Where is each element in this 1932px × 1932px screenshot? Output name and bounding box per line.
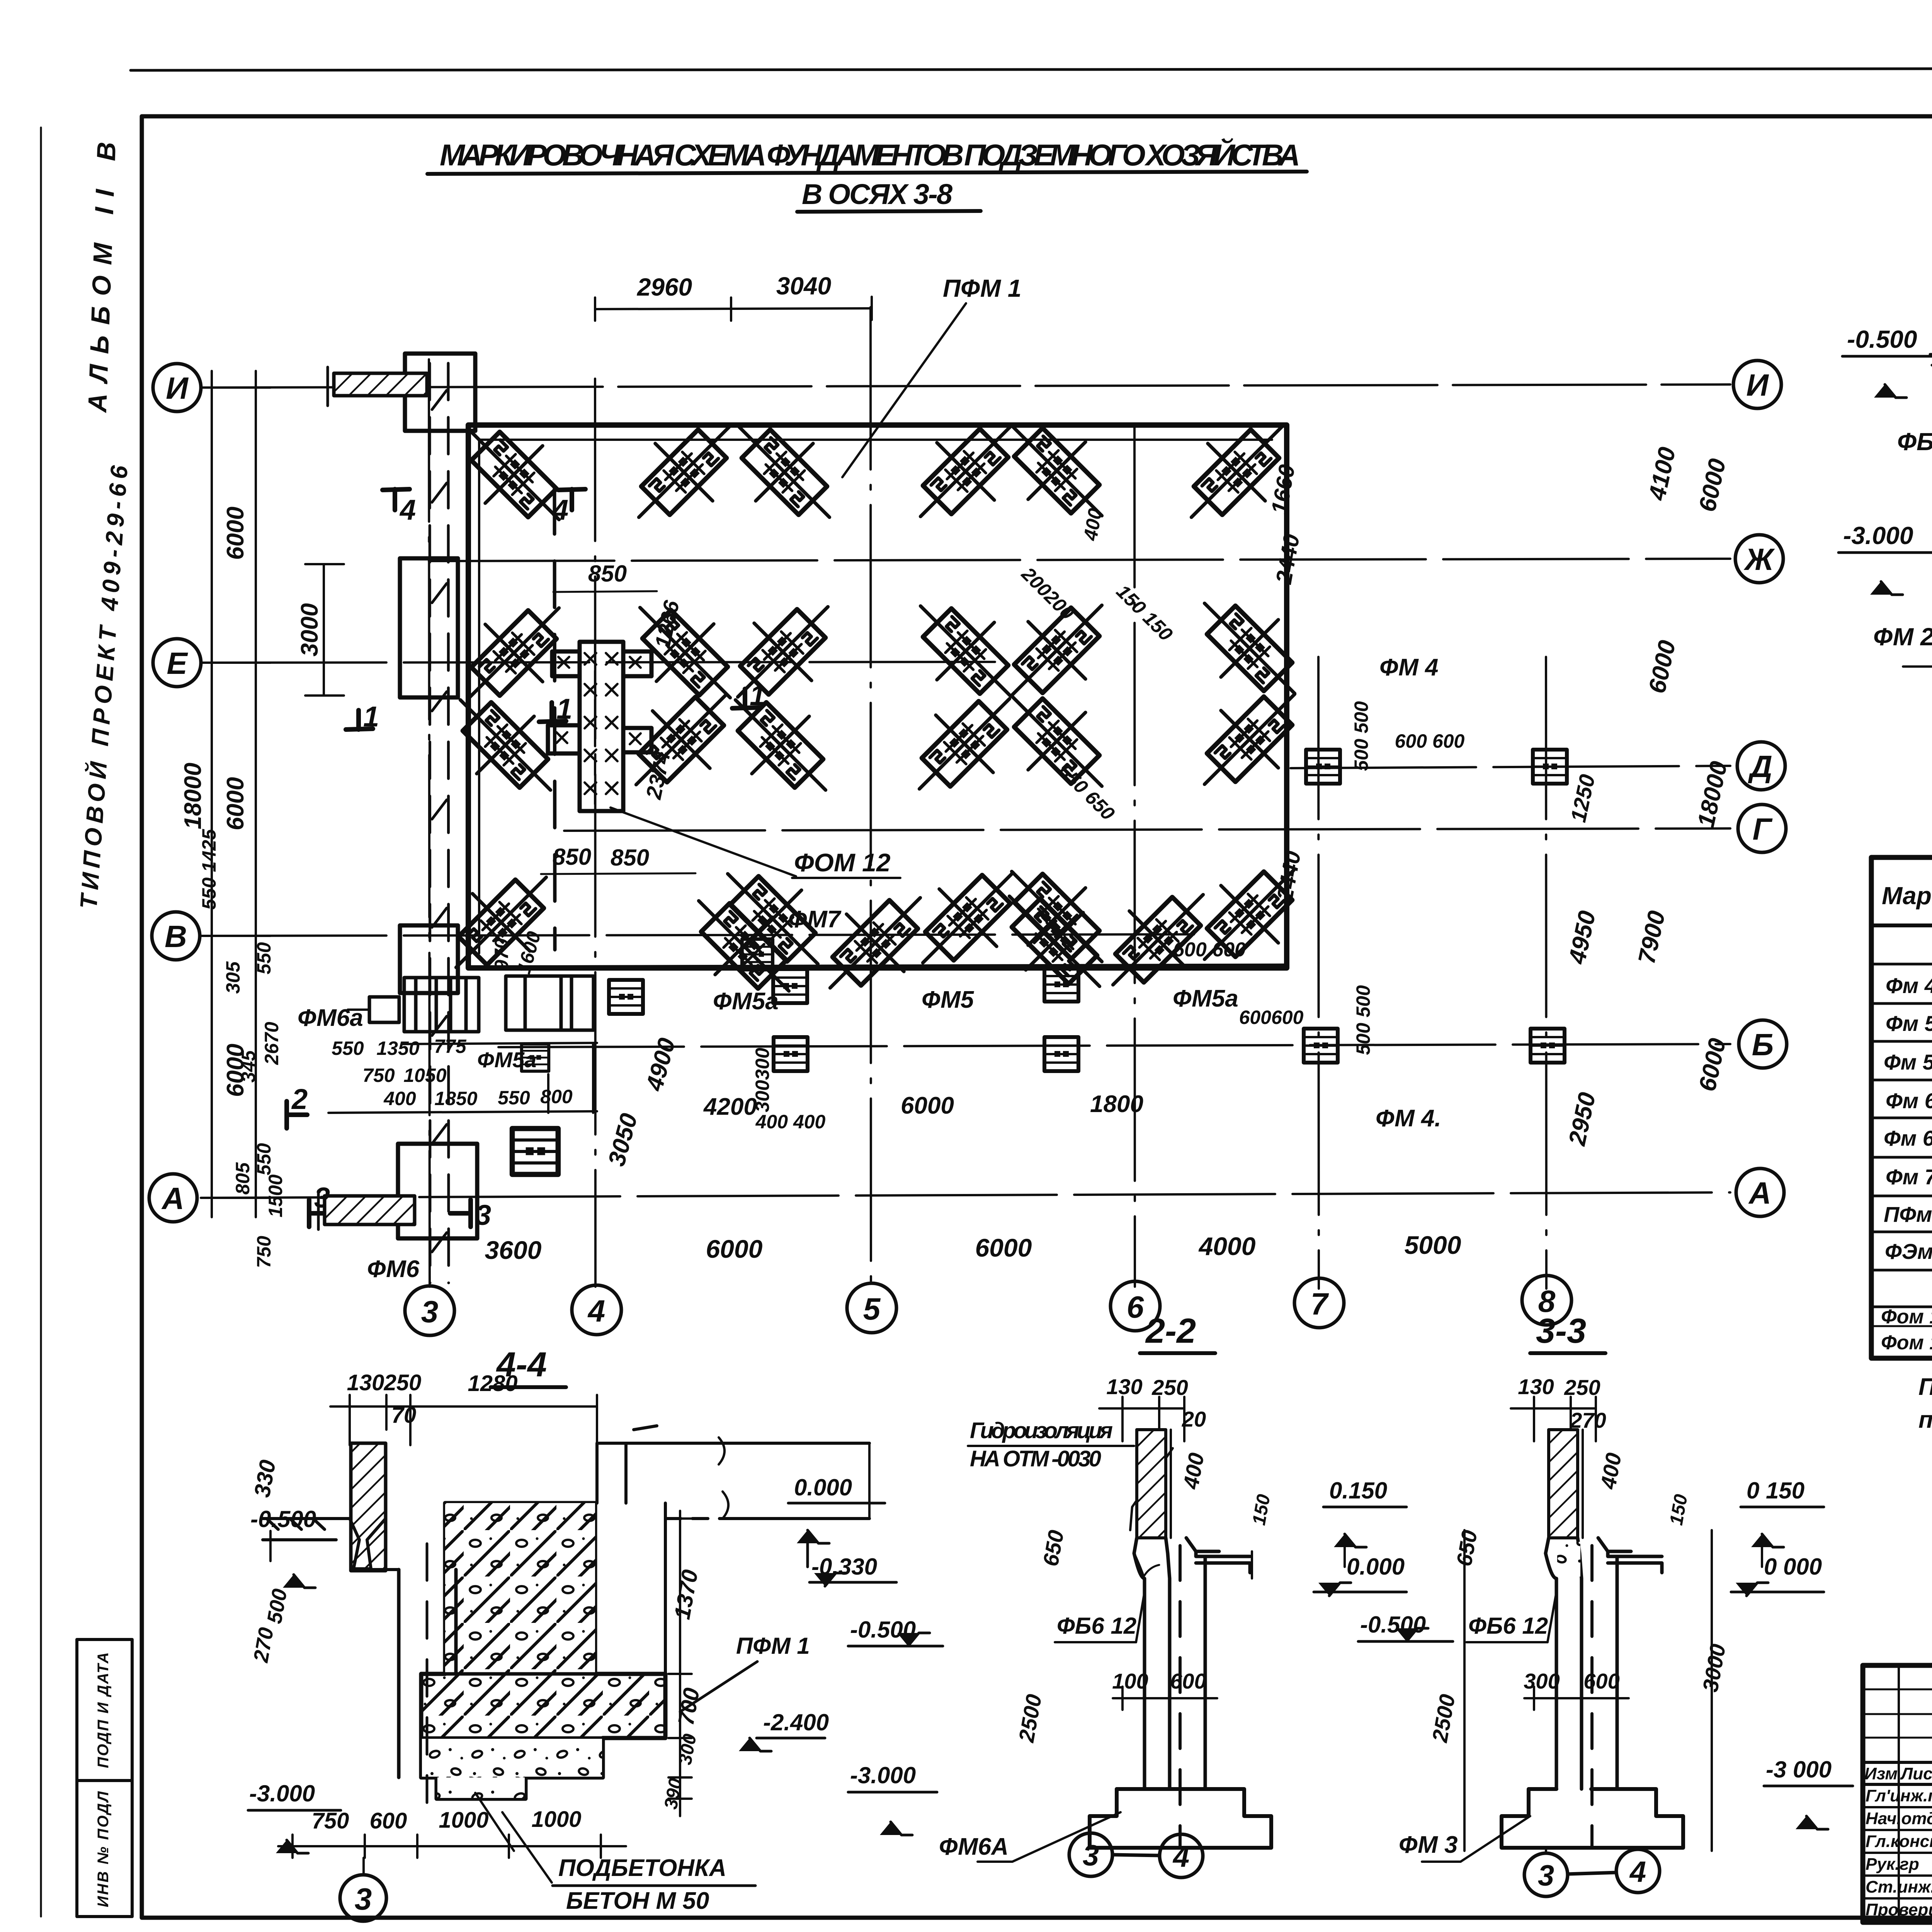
- svg-text:Под фундаментной плитои вып: Под фундаментной плитои выполнить бетонн…: [1918, 1374, 1932, 1400]
- svg-text:Фм 5А: Фм 5А: [1884, 1050, 1932, 1074]
- svg-text:650: 650: [1038, 1528, 1068, 1568]
- right axis circles: [1733, 361, 1781, 408]
- steps: [1090, 1789, 1271, 1848]
- svg-text:6000: 6000: [975, 1233, 1032, 1262]
- steps: [1502, 1789, 1683, 1848]
- left stamp boxes: [77, 1639, 132, 1917]
- svg-text:550: 550: [498, 1087, 530, 1109]
- svg-text:1370: 1370: [670, 1568, 703, 1621]
- svg-text:ФМ 4: ФМ 4: [1379, 654, 1439, 681]
- svg-text:1350: 1350: [376, 1037, 419, 1059]
- svg-text:ФОМ 12: ФОМ 12: [794, 848, 891, 877]
- svg-text:-0.500: -0.500: [1847, 325, 1917, 353]
- svg-text:-3.000: -3.000: [249, 1781, 315, 1806]
- svg-text:-2.400: -2.400: [763, 1709, 829, 1735]
- svg-text:Д: Д: [1748, 749, 1772, 784]
- svg-text:0 150: 0 150: [1747, 1478, 1804, 1503]
- svg-text:600: 600: [370, 1808, 407, 1833]
- bottom dim chain of plan: [406, 1252, 1573, 1283]
- trench along axis 3: [430, 363, 449, 1283]
- svg-text:-3 000: -3 000: [1766, 1757, 1832, 1782]
- svg-text:2500: 2500: [1427, 1692, 1460, 1745]
- svg-text:130: 130: [347, 1370, 384, 1395]
- svg-text:И: И: [1746, 368, 1769, 402]
- horizontal axis lines: [201, 384, 1730, 388]
- top dims: [330, 1395, 597, 1503]
- svg-text:Фм 4: Фм 4: [1886, 973, 1932, 998]
- svg-text:600: 600: [1583, 1669, 1619, 1693]
- dim lines in that cluster: [216, 947, 591, 1206]
- svg-text:390: 390: [661, 1777, 686, 1811]
- svg-text:3: 3: [421, 1294, 439, 1329]
- section cut marks: [287, 489, 765, 1231]
- svg-text:2: 2: [291, 1083, 308, 1115]
- svg-text:6: 6: [1127, 1290, 1144, 1324]
- svg-text:250: 250: [384, 1370, 422, 1395]
- svg-text:ФМ5а: ФМ5а: [1173, 985, 1238, 1012]
- svg-text:750: 750: [362, 1065, 395, 1086]
- svg-text:70: 70: [391, 1403, 417, 1428]
- svg-text:БЕТОН М 50: БЕТОН М 50: [566, 1888, 709, 1914]
- svg-text:МАРКИРОВОЧНАЯ СХЕМА ФУНДАМЕНТО: МАРКИРОВОЧНАЯ СХЕМА ФУНДАМЕНТОВ ПОДЗЕМНО…: [440, 138, 1304, 172]
- svg-text:В ОСЯХ 3-8: В ОСЯХ 3-8: [802, 178, 956, 210]
- svg-text:6000: 6000: [901, 1092, 954, 1119]
- pit dashed boundary: [554, 488, 555, 950]
- svg-text:400: 400: [383, 1088, 416, 1109]
- svg-text:6000: 6000: [1694, 1036, 1731, 1094]
- svg-text:2-2: 2-2: [1145, 1312, 1196, 1350]
- svg-text:Фом 11: Фом 11: [1881, 1332, 1932, 1354]
- svg-text:6000: 6000: [1694, 456, 1731, 514]
- hatched wall: [1549, 1430, 1578, 1538]
- right column profile: [1186, 1538, 1250, 1789]
- svg-text:700: 700: [673, 1686, 704, 1727]
- svg-text:970: 970: [491, 938, 512, 971]
- svg-text:7900: 7900: [1633, 908, 1670, 966]
- svg-text:850: 850: [553, 844, 591, 870]
- svg-text:0 000: 0 000: [1764, 1554, 1822, 1580]
- svg-text:АЛЬБОМ II В: АЛЬБОМ II В: [83, 141, 121, 413]
- far-left thin line: [40, 128, 42, 1917]
- svg-text:4: 4: [1172, 1840, 1189, 1873]
- svg-text:800: 800: [540, 1086, 573, 1107]
- svg-text:А: А: [1748, 1176, 1771, 1210]
- svg-text:600600: 600600: [1239, 1007, 1304, 1028]
- svg-text:-3.000: -3.000: [1843, 522, 1913, 549]
- svg-text:400: 400: [1079, 507, 1106, 543]
- svg-text:4: 4: [399, 494, 416, 526]
- svg-text:1000: 1000: [439, 1808, 488, 1833]
- hatched wall column: [351, 1443, 386, 1571]
- svg-text:ФМ 4.: ФМ 4.: [1376, 1105, 1441, 1132]
- svg-text:Ж: Ж: [1743, 542, 1775, 577]
- svg-text:ФМ5: ФМ5: [922, 986, 975, 1013]
- svg-text:Фм 6А: Фм 6А: [1884, 1126, 1932, 1150]
- svg-text:2440: 2440: [1271, 532, 1304, 586]
- right dims/levels: [736, 1475, 877, 1735]
- fm4 leaders: [359, 682, 1546, 1269]
- top dims: [1511, 1397, 1596, 1441]
- bottom dims: [278, 1835, 626, 1858]
- vertical axis lines: [429, 359, 430, 1287]
- svg-text:500 500: 500 500: [1350, 701, 1372, 771]
- svg-text:650: 650: [1452, 1528, 1482, 1568]
- svg-text:Нач.отд.: Нач.отд.: [1866, 1809, 1932, 1828]
- svg-text:6000: 6000: [222, 507, 249, 560]
- svg-text:ПОДБЕТОНКА: ПОДБЕТОНКА: [558, 1855, 726, 1881]
- body texts: [1881, 930, 1932, 1354]
- svg-text:Лист: Лист: [1900, 1764, 1932, 1783]
- svg-text:100: 100: [1112, 1669, 1148, 1693]
- svg-text:150: 150: [1249, 1493, 1274, 1527]
- hatched wall: [1137, 1430, 1166, 1538]
- svg-text:-0.500: -0.500: [250, 1506, 316, 1532]
- svg-text:ПОДП И ДАТА: ПОДП И ДАТА: [95, 1652, 112, 1768]
- svg-text:18000: 18000: [180, 763, 206, 829]
- svg-text:подготовку из бетона М-200: подготовку из бетона М-200 толщиной 100м…: [1918, 1406, 1932, 1433]
- svg-text:805: 805: [232, 1162, 253, 1195]
- floor slab left: [263, 1519, 386, 1569]
- svg-text:Гл'инж.пр.: Гл'инж.пр.: [1866, 1786, 1932, 1805]
- svg-text:300300: 300300: [752, 1048, 773, 1112]
- svg-text:1000: 1000: [531, 1807, 581, 1832]
- table outline: [1871, 857, 1932, 1358]
- svg-text:150: 150: [1666, 1493, 1692, 1527]
- svg-text:345: 345: [238, 1050, 259, 1083]
- svg-text:Ст.инж.: Ст.инж.: [1866, 1878, 1932, 1896]
- svg-text:ФМ5а: ФМ5а: [713, 988, 779, 1015]
- svg-text:6000: 6000: [222, 777, 249, 830]
- svg-text:Гл.констр: Гл.констр: [1866, 1832, 1932, 1851]
- plan mid labels: [298, 654, 1441, 1282]
- svg-text:200200: 200200: [1017, 563, 1078, 624]
- svg-text:2960: 2960: [637, 273, 692, 301]
- svg-text:ФМ6а: ФМ6а: [298, 1005, 363, 1031]
- dims: [1427, 1642, 1730, 1745]
- svg-text:ТИПОВОЙ ПРОЕКТ 409-29-66: ТИПОВОЙ ПРОЕКТ 409-29-66: [75, 464, 133, 910]
- svg-text:3-3: 3-3: [1536, 1312, 1586, 1350]
- bottom axis circles: [405, 1286, 454, 1335]
- svg-text:1500: 1500: [265, 1174, 286, 1217]
- A-row beam and block at axis 3: [398, 1144, 477, 1238]
- top thin sheet line: [131, 68, 1932, 70]
- svg-text:ПФМ 1: ПФМ 1: [736, 1633, 810, 1659]
- svg-text:3000: 3000: [1698, 1642, 1730, 1694]
- svg-text:4950: 4950: [1563, 908, 1601, 967]
- svg-text:Фм 7: Фм 7: [1886, 1165, 1932, 1189]
- svg-text:1660: 1660: [1267, 463, 1300, 516]
- svg-text:ИНВ № ПОДЛ: ИНВ № ПОДЛ: [95, 1791, 112, 1907]
- svg-text:850: 850: [588, 561, 627, 587]
- svg-text:Е: Е: [167, 646, 188, 680]
- svg-text:4000: 4000: [1198, 1232, 1256, 1260]
- svg-text:1280: 1280: [468, 1371, 517, 1396]
- svg-text:1850: 1850: [434, 1088, 477, 1109]
- svg-text:Марка: Марка: [1882, 882, 1932, 910]
- svg-text:4100: 4100: [1643, 445, 1681, 503]
- podbetonka speckles lower-left part: [422, 1739, 602, 1777]
- ground line + hatched ground: [1930, 354, 1932, 365]
- svg-text:130: 130: [1518, 1374, 1554, 1399]
- svg-text:775: 775: [434, 1036, 467, 1057]
- svg-text:А: А: [161, 1181, 184, 1216]
- svg-text:Фом 10: Фом 10: [1881, 1306, 1932, 1328]
- left signature table: [1863, 1665, 1932, 1922]
- svg-text:550: 550: [253, 1143, 275, 1175]
- svg-text:600 600: 600 600: [1173, 939, 1246, 961]
- svg-text:300: 300: [1524, 1669, 1560, 1693]
- svg-text:2440: 2440: [1272, 849, 1306, 903]
- svg-text:400: 400: [1178, 1451, 1208, 1491]
- svg-text:И: И: [166, 371, 189, 405]
- small square foundations: [512, 750, 1567, 1174]
- svg-text:3: 3: [1083, 1839, 1099, 1872]
- dims between В and Б rows: [638, 1083, 1171, 1108]
- dims: [1014, 1669, 1206, 1744]
- left pier verticals: [397, 1570, 401, 1777]
- svg-text:1: 1: [556, 693, 572, 725]
- svg-text:0.000: 0.000: [1347, 1554, 1405, 1580]
- building thick outline: [468, 425, 1287, 968]
- svg-text:400: 400: [1595, 1451, 1626, 1491]
- svg-text:6000: 6000: [1644, 638, 1681, 696]
- svg-text:ФЭм 9: ФЭм 9: [1885, 1239, 1932, 1264]
- left small dims cluster (В-А zone): [198, 829, 573, 1268]
- svg-text:Рук.гр: Рук.гр: [1866, 1855, 1919, 1874]
- svg-text:3050: 3050: [603, 1111, 643, 1169]
- svg-text:3: 3: [1538, 1859, 1554, 1892]
- svg-text:500 500: 500 500: [1352, 985, 1374, 1055]
- svg-text:1800: 1800: [1090, 1091, 1143, 1117]
- svg-text:5: 5: [863, 1292, 881, 1326]
- svg-text:750: 750: [253, 1236, 275, 1268]
- top dims: [1099, 1397, 1184, 1441]
- svg-text:600: 600: [1170, 1669, 1206, 1693]
- svg-text:1: 1: [363, 701, 379, 733]
- svg-text:5000: 5000: [1405, 1231, 1461, 1259]
- svg-text:0.150: 0.150: [1329, 1478, 1387, 1503]
- svg-text:2950: 2950: [1564, 1090, 1601, 1148]
- svg-text:2500: 2500: [1014, 1692, 1046, 1745]
- svg-text:400 400: 400 400: [755, 1111, 826, 1133]
- svg-text:4900: 4900: [641, 1035, 681, 1094]
- header texts: [1882, 873, 1932, 920]
- central equipment plate FOM12: [548, 642, 651, 811]
- funnel + stem: [1134, 1538, 1170, 1789]
- svg-text:ФМ5а: ФМ5а: [477, 1048, 536, 1072]
- svg-text:ПФм 1: ПФм 1: [1884, 1202, 1932, 1226]
- foundation diamonds: [427, 397, 1323, 1020]
- svg-text:Изм: Изм: [1864, 1764, 1898, 1783]
- svg-text:ПФМ 1: ПФМ 1: [943, 274, 1021, 302]
- svg-text:3000: 3000: [296, 603, 323, 656]
- svg-text:4: 4: [1629, 1855, 1646, 1888]
- rotated dims near diamonds right: [1017, 463, 1465, 1055]
- svg-text:-3.000: -3.000: [850, 1762, 916, 1788]
- svg-text:3040: 3040: [776, 272, 831, 300]
- svg-text:550 1425: 550 1425: [198, 829, 220, 910]
- svg-text:НА ОТМ -0030: НА ОТМ -0030: [970, 1446, 1101, 1471]
- left dimension chains: [201, 371, 344, 1217]
- svg-text:2670: 2670: [261, 1022, 282, 1065]
- svg-text:Б: Б: [1752, 1027, 1774, 1062]
- svg-text:550: 550: [332, 1037, 364, 1059]
- dashed centerline: [1179, 1546, 1182, 1847]
- svg-text:0.000: 0.000: [794, 1475, 852, 1500]
- right structure lines: [597, 1426, 869, 1673]
- svg-text:3: 3: [355, 1882, 372, 1916]
- svg-text:Проверил: Проверил: [1866, 1900, 1932, 1919]
- svg-text:600 600: 600 600: [1395, 730, 1465, 752]
- header bottom: [1871, 923, 1932, 927]
- svg-text:4: 4: [587, 1294, 605, 1328]
- right column profile: [1598, 1538, 1662, 1789]
- svg-text:550: 550: [253, 942, 275, 975]
- svg-text:330: 330: [249, 1458, 281, 1499]
- svg-text:20: 20: [1182, 1407, 1206, 1431]
- mid bottom cluster near axis 3-4: [328, 976, 597, 1113]
- svg-text:ФМ 3: ФМ 3: [1399, 1832, 1458, 1858]
- svg-text:850: 850: [611, 845, 649, 871]
- svg-text:1050: 1050: [403, 1065, 446, 1086]
- svg-text:ФБ6 11: ФБ6 11: [1897, 428, 1932, 456]
- svg-text:270: 270: [249, 1626, 278, 1664]
- wall blocks on trench: [400, 558, 458, 697]
- I-row beam and block at axis 3: [405, 354, 475, 431]
- svg-text:6000: 6000: [706, 1235, 763, 1263]
- svg-text:Г: Г: [1752, 812, 1773, 846]
- svg-text:130: 130: [1106, 1374, 1142, 1399]
- svg-text:18000: 18000: [1692, 759, 1732, 830]
- svg-text:ФМ 2а: ФМ 2а: [1873, 622, 1932, 651]
- funnel + stem: [1546, 1538, 1582, 1789]
- right-side dim chains: [1584, 385, 1739, 1194]
- svg-text:ФБ6 12: ФБ6 12: [1468, 1613, 1548, 1639]
- svg-text:250: 250: [1564, 1375, 1600, 1400]
- svg-text:250: 250: [1151, 1375, 1188, 1400]
- svg-text:ФБ6 12: ФБ6 12: [1057, 1613, 1136, 1639]
- svg-text:150 150: 150 150: [1112, 580, 1177, 645]
- svg-text:-0.500: -0.500: [1360, 1612, 1426, 1638]
- svg-text:ФМ6: ФМ6: [367, 1256, 420, 1282]
- svg-text:3600: 3600: [485, 1236, 542, 1264]
- svg-text:7: 7: [1311, 1287, 1329, 1321]
- svg-text:ФМ6А: ФМ6А: [939, 1833, 1009, 1860]
- svg-text:Фм 6: Фм 6: [1886, 1088, 1932, 1113]
- svg-text:305: 305: [222, 961, 244, 994]
- svg-text:Фм 5: Фм 5: [1886, 1011, 1932, 1036]
- big foundation block hatched: [421, 1503, 665, 1799]
- dashed centerline: [1590, 1546, 1594, 1847]
- svg-text:1250: 1250: [1566, 772, 1600, 824]
- svg-text:Гидроизоляция: Гидроизоляция: [970, 1418, 1113, 1443]
- row lines: [1871, 964, 1932, 1326]
- left axis circles: [149, 361, 1787, 1335]
- top dim 2960/3040: [595, 297, 872, 321]
- svg-text:500: 500: [263, 1587, 292, 1625]
- svg-text:В: В: [165, 919, 187, 954]
- svg-text:750: 750: [312, 1808, 349, 1833]
- svg-text:ФМ7: ФМ7: [788, 906, 842, 933]
- svg-text:4200: 4200: [703, 1094, 757, 1120]
